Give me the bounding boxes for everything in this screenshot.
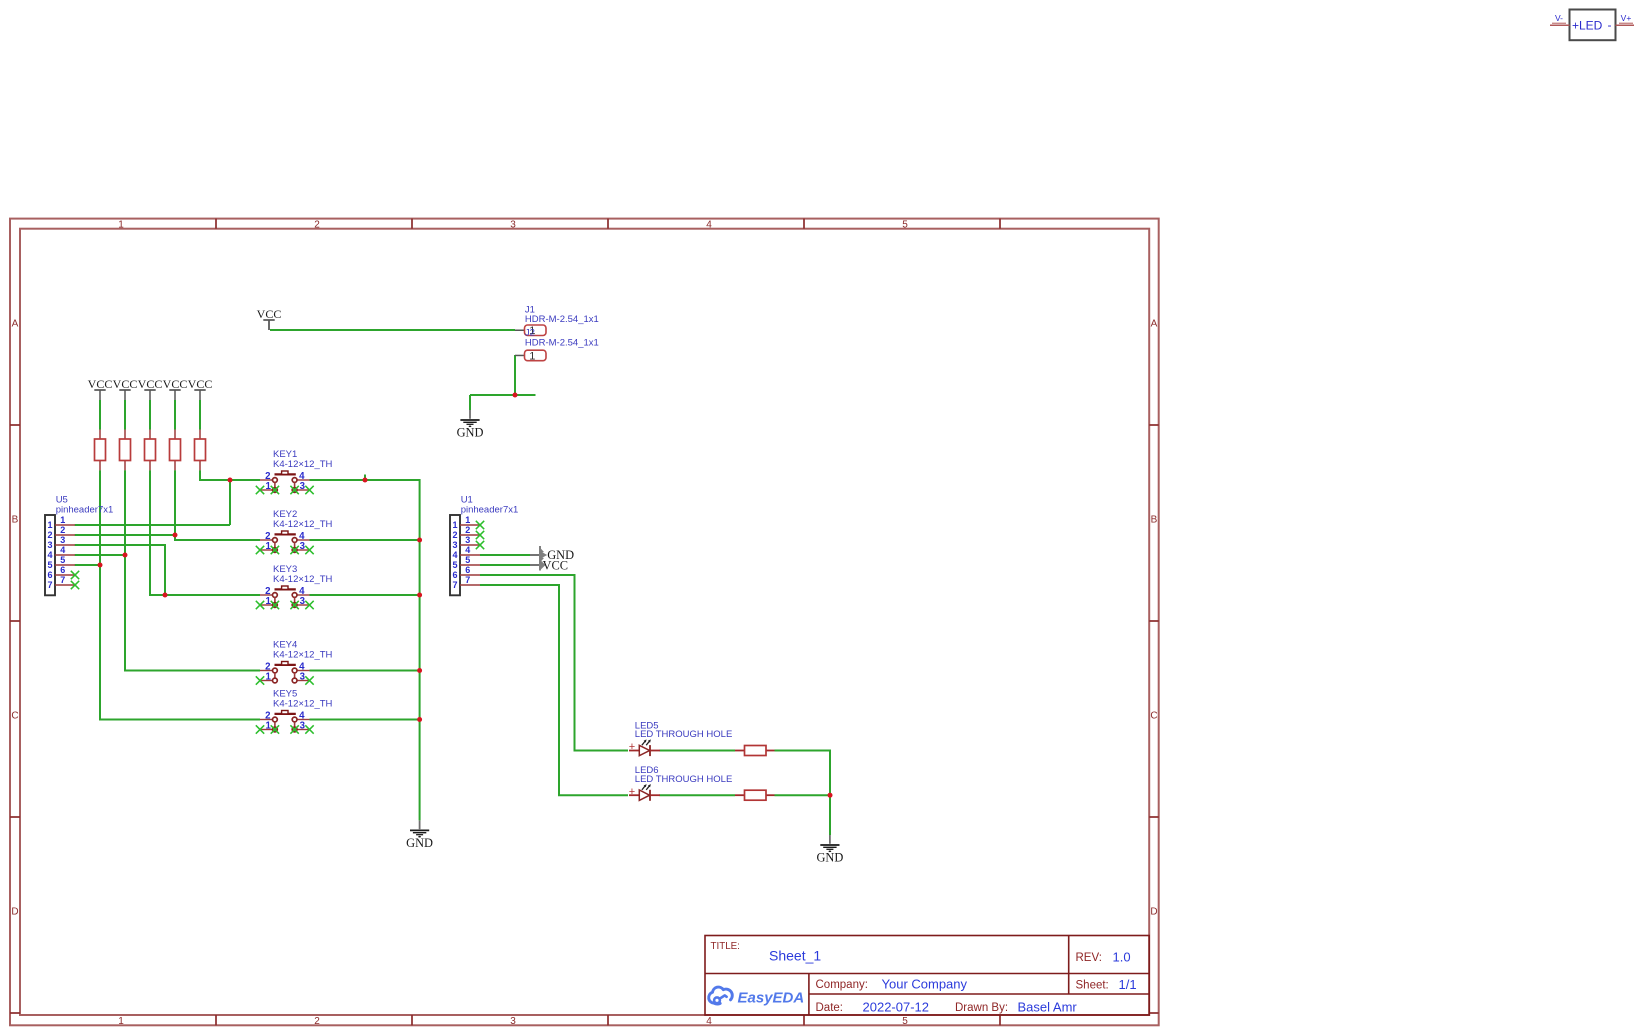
svg-text:TITLE:: TITLE:	[711, 941, 740, 952]
svg-text:6: 6	[60, 565, 65, 575]
svg-text:3: 3	[60, 535, 65, 545]
svg-text:6: 6	[465, 565, 470, 575]
svg-text:1: 1	[266, 541, 272, 552]
svg-text:2: 2	[314, 219, 320, 230]
svg-text:K4-12×12_TH: K4-12×12_TH	[273, 650, 333, 661]
svg-text:K4-12×12_TH: K4-12×12_TH	[273, 459, 333, 470]
svg-text:+: +	[629, 786, 635, 798]
svg-text:Date:: Date:	[816, 1002, 844, 1014]
svg-text:V+: V+	[1621, 13, 1632, 23]
svg-text:4: 4	[47, 550, 52, 560]
svg-text:pinheader7x1: pinheader7x1	[461, 505, 519, 516]
svg-text:GND: GND	[816, 851, 843, 865]
svg-text:K4-12×12_TH: K4-12×12_TH	[273, 519, 333, 530]
svg-text:2022-07-12: 2022-07-12	[863, 1000, 930, 1015]
svg-text:4: 4	[452, 550, 457, 560]
svg-text:REV:: REV:	[1076, 952, 1102, 964]
svg-text:3: 3	[47, 540, 52, 550]
svg-text:7: 7	[60, 575, 65, 585]
svg-text:3: 3	[300, 721, 306, 732]
svg-text:B: B	[12, 515, 19, 526]
svg-text:2: 2	[47, 530, 52, 540]
svg-text:D: D	[11, 907, 18, 918]
svg-text:LED THROUGH HOLE: LED THROUGH HOLE	[635, 774, 732, 785]
svg-text:5: 5	[60, 555, 65, 565]
svg-text:1: 1	[452, 520, 457, 530]
svg-text:2: 2	[60, 525, 65, 535]
svg-text:-: -	[1608, 18, 1612, 32]
svg-text:7: 7	[452, 580, 457, 590]
svg-text:Basel Amr: Basel Amr	[1018, 1000, 1078, 1015]
svg-text:D: D	[1150, 907, 1157, 918]
svg-text:LED THROUGH HOLE: LED THROUGH HOLE	[635, 729, 732, 740]
svg-text:1: 1	[60, 515, 65, 525]
svg-text:1: 1	[465, 515, 470, 525]
svg-text:3: 3	[465, 535, 470, 545]
svg-text:1: 1	[118, 1016, 124, 1027]
svg-text:A: A	[1151, 319, 1158, 330]
svg-text:VCC: VCC	[543, 559, 568, 573]
svg-text:B: B	[1151, 515, 1158, 526]
svg-text:5: 5	[465, 555, 470, 565]
svg-text:5: 5	[902, 1016, 908, 1027]
svg-text:Sheet_1: Sheet_1	[769, 948, 821, 964]
svg-text:3: 3	[452, 540, 457, 550]
svg-text:K4-12×12_TH: K4-12×12_TH	[273, 574, 333, 585]
svg-text:Company:: Company:	[816, 979, 868, 991]
svg-text:GND: GND	[406, 836, 433, 850]
svg-text:EasyEDA: EasyEDA	[738, 990, 805, 1007]
svg-text:1: 1	[118, 219, 124, 230]
svg-text:3: 3	[510, 219, 516, 230]
svg-text:1: 1	[47, 520, 52, 530]
svg-text:1: 1	[266, 481, 272, 492]
svg-text:Your Company: Your Company	[882, 977, 968, 992]
svg-text:VCC: VCC	[138, 377, 163, 391]
svg-text:VCC: VCC	[163, 377, 188, 391]
svg-text:VCC: VCC	[113, 377, 138, 391]
svg-text:1: 1	[266, 596, 272, 607]
svg-text:K4-12×12_TH: K4-12×12_TH	[273, 699, 333, 710]
svg-text:2: 2	[452, 530, 457, 540]
svg-text:4: 4	[706, 1016, 712, 1027]
svg-text:5: 5	[47, 560, 52, 570]
svg-text:2: 2	[314, 1016, 320, 1027]
svg-text:4: 4	[706, 219, 712, 230]
svg-text:HDR-M-2.54_1x1: HDR-M-2.54_1x1	[525, 314, 599, 325]
svg-text:3: 3	[300, 481, 306, 492]
svg-text:5: 5	[902, 219, 908, 230]
svg-text:GND: GND	[457, 426, 484, 440]
svg-text:4: 4	[465, 545, 470, 555]
svg-text:1: 1	[266, 672, 272, 683]
svg-text:Sheet:: Sheet:	[1076, 980, 1109, 992]
svg-text:6: 6	[452, 570, 457, 580]
svg-text:1.0: 1.0	[1113, 950, 1131, 965]
svg-text:Drawn By:: Drawn By:	[955, 1002, 1008, 1014]
svg-text:HDR-M-2.54_1x1: HDR-M-2.54_1x1	[525, 337, 599, 348]
svg-text:6: 6	[47, 570, 52, 580]
svg-text:1: 1	[529, 350, 535, 362]
svg-text:VCC: VCC	[257, 307, 282, 321]
svg-text:C: C	[1150, 711, 1157, 722]
svg-text:7: 7	[47, 580, 52, 590]
svg-text:3: 3	[300, 672, 306, 683]
svg-text:7: 7	[465, 575, 470, 585]
svg-text:1: 1	[266, 721, 272, 732]
svg-text:5: 5	[452, 560, 457, 570]
svg-text:VCC: VCC	[188, 377, 213, 391]
svg-text:+LED: +LED	[1572, 19, 1603, 33]
svg-text:3: 3	[300, 596, 306, 607]
svg-text:V-: V-	[1555, 13, 1563, 23]
svg-text:4: 4	[60, 545, 65, 555]
svg-text:A: A	[12, 319, 19, 330]
svg-text:VCC: VCC	[88, 377, 113, 391]
svg-text:+: +	[629, 741, 635, 753]
svg-text:C: C	[11, 711, 18, 722]
svg-text:1/1: 1/1	[1119, 977, 1137, 992]
svg-text:pinheader7x1: pinheader7x1	[56, 505, 114, 516]
svg-text:3: 3	[510, 1016, 516, 1027]
svg-text:2: 2	[465, 525, 470, 535]
svg-text:3: 3	[300, 541, 306, 552]
